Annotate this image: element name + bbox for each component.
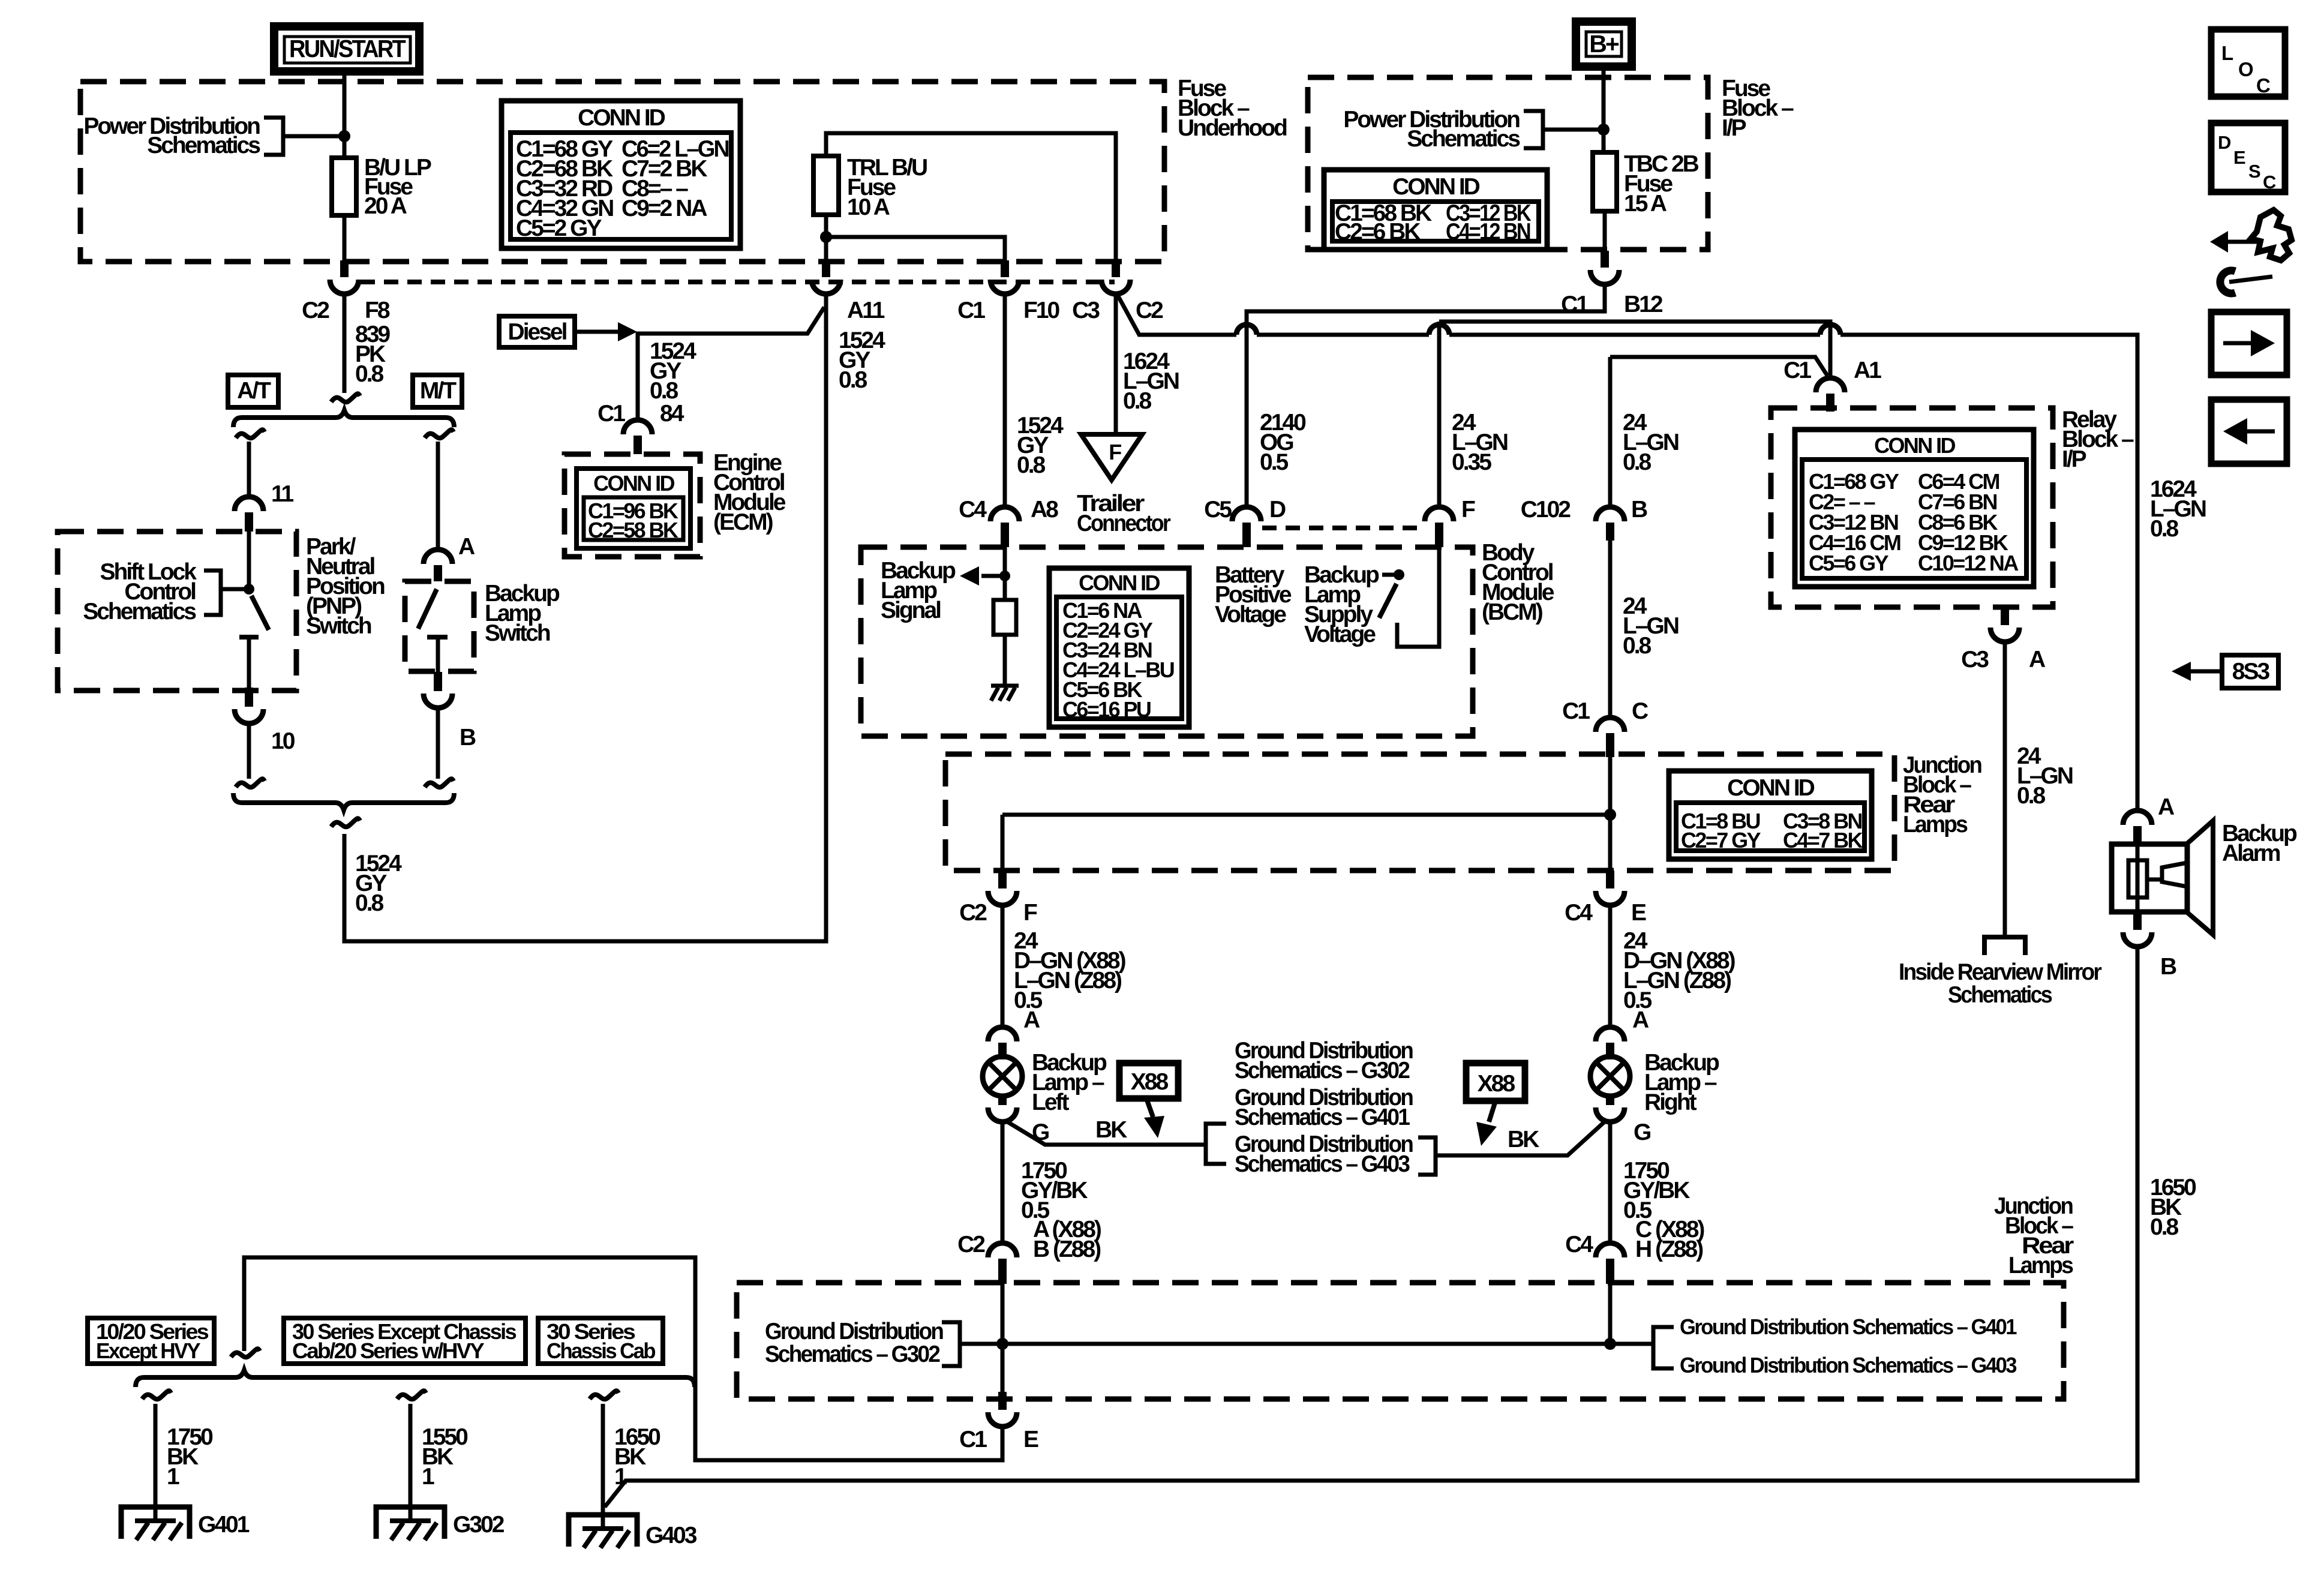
wire below pin B [436,708,440,779]
svg-text:S: S [2248,161,2261,182]
connector C2 (left lamp into junction) [957,1232,1017,1284]
wire break below pin 10 [236,779,265,787]
label 1624 L-GN 0.8 (right rail) [2150,476,2206,542]
svg-text:D: D [2218,132,2231,153]
backup lamp right [1590,1056,1630,1105]
svg-text:B: B [2160,954,2176,980]
svg-text:(BCM): (BCM) [1482,599,1543,625]
svg-text:C102: C102 [1521,497,1571,523]
ECM dashed box [565,454,700,557]
label 1524 GY 0.8 (A8 wire) [1017,413,1064,478]
svg-text:H (Z88): H (Z88) [1635,1236,1703,1262]
wire C102 column from bus 595 [1610,357,1827,376]
label 1750 GY/BK 0.5 (right) [1623,1158,1704,1262]
svg-text:A: A [2029,647,2046,673]
connector C4/E (junction exit right) [1565,870,1646,926]
icon LOC box [2211,29,2285,97]
svg-text:C2=7 GY: C2=7 GY [1681,828,1761,852]
bracket G403 right [1418,1137,1436,1175]
power tag RUN/START [274,26,419,71]
options brace (grounds) [136,1370,695,1387]
svg-text:C5: C5 [1204,497,1232,523]
CONN ID table (relay block) [1795,430,2034,587]
wire break branch G401 [142,1391,171,1399]
svg-text:CONN ID: CONN ID [578,105,665,131]
svg-text:C4: C4 [1565,1232,1593,1257]
label Fuse Block Underhood [1178,76,1287,141]
svg-text:Cab/20 Series w/HVY: Cab/20 Series w/HVY [292,1338,485,1363]
connector A (right lamp) [1596,1027,1625,1059]
svg-text:Lamps: Lamps [2008,1253,2073,1278]
CONN ID table (ECM) [577,469,690,548]
bracket power distribution I/P [1524,111,1543,148]
svg-text:C2: C2 [1136,298,1163,323]
label Backup Lamp Switch [485,581,560,646]
svg-text:B+: B+ [1589,30,1619,58]
svg-text:Ground Distribution Schematics: Ground Distribution Schematics – G403 [1680,1353,2017,1377]
wire RUN/START to fuse [343,71,347,158]
option tag M/T [413,375,462,407]
svg-text:Right: Right [1644,1089,1697,1115]
hop over A1 column [1820,325,1840,335]
label 839 PK 0.8 [355,322,390,387]
svg-text:15 A: 15 A [1624,191,1667,217]
connector C2/F8 [302,260,390,323]
svg-text:C2=58 BK: C2=58 BK [588,518,678,542]
svg-text:Schematics – G403: Schematics – G403 [1235,1151,1410,1177]
svg-text:Underhood: Underhood [1178,115,1287,141]
svg-text:1: 1 [167,1464,179,1490]
label Shift Lock Control Schematics [83,559,197,625]
wire alarm B down to G403 [605,947,2137,1507]
svg-text:O: O [2238,58,2254,80]
svg-text:A: A [1023,1007,1040,1033]
wire right lamp ground diagonal [1436,1119,1607,1155]
label 1750 GY/BK 0.5 (left) [1021,1158,1101,1262]
wire 1524 GY down and over to A11 wire [344,294,826,941]
svg-text:Chassis Cab: Chassis Cab [547,1338,656,1363]
wire TBC fuse to B12 [1603,211,1607,251]
label 1524 GY 0.8 (A11 wire) [839,328,885,393]
svg-text:Signal: Signal [881,598,941,623]
tag Diesel with arrow [499,316,637,347]
terminal to inside rearview mirror [1984,937,2025,955]
bracket power distribution underhood [264,118,283,155]
label 1650 BK 0.8 (alarm) [2150,1175,2196,1240]
icon back arrow box [2211,400,2287,464]
svg-text:Schematics – G302: Schematics – G302 [765,1341,940,1367]
connector C3/C2 [1072,260,1163,323]
tag X88 (left) with arrow [1119,1063,1178,1138]
svg-text:C4: C4 [1565,900,1593,926]
svg-text:C4=12 BN: C4=12 BN [1446,219,1530,245]
svg-text:20 A: 20 A [364,193,407,219]
svg-text:CONN ID: CONN ID [1874,433,1955,458]
svg-text:0.8: 0.8 [355,890,384,916]
svg-text:Alarm: Alarm [2222,840,2280,866]
svg-text:C3: C3 [1961,647,1989,673]
svg-text:Schematics – G401: Schematics – G401 [1235,1104,1410,1130]
junction block dashed box [945,754,1894,870]
svg-text:A8: A8 [1031,497,1058,523]
connector pin 11 (PNP switch) [235,481,294,532]
svg-text:E: E [2233,147,2246,168]
backup alarm body [2112,821,2297,935]
svg-text:A11: A11 [847,298,885,323]
connector C4/A8 [959,497,1058,547]
wire C1/F10 down to C4/A8 [1003,294,1007,507]
svg-text:Diesel: Diesel [508,319,567,345]
label 2140 OG 0.5 [1260,410,1306,475]
label Engine Control Module (ECM) [713,450,786,535]
node PNP switch pivot [244,584,254,595]
connector C3/A (relay block) [1961,607,2046,673]
wire top loop from TRL fuse to C3/C2 [826,133,1116,260]
connector pin B (backup lamp switch) [424,672,476,751]
svg-text:Switch: Switch [485,620,550,646]
svg-text:F: F [1023,900,1037,926]
node junction dot at B/U LP fuse feed [338,130,350,142]
svg-text:CONN ID: CONN ID [1392,174,1480,200]
ground G302 [376,1507,505,1540]
bracket G302 [942,1322,960,1366]
connector A (backup alarm) [2123,794,2175,844]
backup lamp left [983,1056,1022,1105]
label Power Distribution Schematics (I/P) [1343,107,1520,152]
svg-text:C: C [2256,74,2271,97]
svg-text:B12: B12 [1624,292,1663,317]
label 24 L-GN 0.8 (C1/C) [1623,593,1679,659]
wire break above options brace [231,1349,260,1357]
connector C1/F10 [957,260,1059,323]
svg-text:A: A [2158,794,2175,820]
svg-text:C: C [1632,698,1649,724]
connector B (backup alarm) [2123,912,2176,980]
label Junction Block Rear Lamps (top) [1903,752,1981,837]
svg-text:0.8: 0.8 [2017,783,2046,809]
svg-text:0.8: 0.8 [650,378,678,404]
svg-text:11: 11 [271,481,294,507]
svg-text:10: 10 [271,728,295,754]
ground (BCM internal) [991,686,1019,701]
joining brace below PNP and backup lamp switch [233,793,454,810]
svg-text:0.35: 0.35 [1452,449,1491,475]
label Relay Block I/P [2062,407,2134,472]
wire left lamp ground diagonal [1005,1121,1206,1145]
backup lamp switch lower contact [427,635,448,640]
svg-text:E: E [1023,1427,1038,1452]
svg-text:C1: C1 [1561,292,1589,317]
wire break above A/T M/T brace [331,394,360,402]
fuse TBC 2B 15A [1593,151,1699,217]
svg-text:1: 1 [614,1464,627,1490]
label Body Control Module (BCM) [1482,540,1554,625]
wire branch to G302 [409,1404,413,1522]
svg-text:RUN/START: RUN/START [289,35,406,62]
wire C102/B down to C1/C [1608,541,1613,718]
svg-text:CONN ID: CONN ID [593,471,674,496]
icon DESC box [2211,123,2285,193]
ground G403 [569,1515,697,1548]
svg-text:Switch: Switch [306,613,371,639]
resistor (backup lamp signal) [993,600,1016,635]
arrow backup lamp signal [981,574,1005,578]
wire dot to C1/F10 [826,237,1005,260]
svg-text:C2: C2 [959,900,987,926]
svg-text:0.8: 0.8 [1123,388,1152,414]
svg-text:84: 84 [660,401,684,427]
wire break below joining brace [331,818,360,827]
label 1524 GY 0.8 (ECM branch) [650,338,696,404]
connector C1/A1 [1783,358,1881,412]
connector C102/B [1521,497,1647,541]
tag X88 (right) with arrow [1466,1063,1525,1146]
connector C1/C [1562,698,1649,757]
wire C3/C2 trailer drop [1114,294,1118,434]
svg-text:C6=16 PU: C6=16 PU [1062,697,1151,722]
wire junction C4/E to right lamp [1608,905,1613,1027]
label 1650 BK 1 [614,1424,660,1490]
svg-text:X88: X88 [1478,1071,1515,1097]
svg-text:A/T: A/T [237,378,271,404]
wire right branch to pin A [425,430,454,438]
svg-text:C9=2 NA: C9=2 NA [621,196,707,221]
label 1550 BK 1 [422,1424,468,1490]
svg-text:0.8: 0.8 [355,361,384,387]
connector A11 [812,260,885,323]
wire break branch G403 [590,1391,618,1399]
bracket shift lock [204,571,221,615]
bracket G401/G403 right [1653,1327,1674,1368]
svg-text:B: B [1631,497,1647,523]
svg-text:F8: F8 [365,298,390,323]
dotted BCM connector interface line [1262,526,1424,530]
option tag 30 Series Chassis Cab [538,1318,663,1364]
dotted connector interface line (fuse block underhood) [361,280,1115,284]
svg-text:X88: X88 [1131,1069,1169,1095]
node backup lamp signal dot [999,571,1010,581]
wire fuse to A11 [824,215,828,260]
wire ECM branch from A11 [638,307,824,420]
label Ground Distribution Schematics G302 (left) [765,1319,943,1367]
wire bus 536 linking F and A1 [1439,322,1830,377]
tag 8S3 with arrow [2172,655,2278,688]
fuse TRL B/U 10A [813,155,927,220]
label 1624 L-GN 0.8 (trailer) [1123,349,1179,414]
svg-text:0.8: 0.8 [1623,633,1652,659]
label 24 D-GN L-GN 0.5 A (left) [1014,928,1126,1033]
wire C1/E loop to options brace [244,1257,1002,1460]
connector C4 (right lamp into junction) [1565,1232,1625,1284]
PNP switch upper wire [247,532,251,587]
relay block dashed box [1771,408,2053,607]
label 1524 GY 0.8 (left) [355,851,402,916]
junction block internal bus [1002,757,1610,870]
svg-text:Except HVY: Except HVY [96,1338,201,1363]
svg-text:G302: G302 [453,1512,505,1538]
label Backup Lamp Signal [881,558,956,623]
icon forward arrow box [2211,312,2287,375]
label Power Distribution Schematics (underhood) [83,113,260,158]
label 24 L-GN 0.8 (C102) [1623,410,1679,475]
bracket G403 left [1206,1124,1226,1164]
svg-text:0.5: 0.5 [1260,449,1289,475]
wire B12 down and left to C5/D column [1247,284,1605,507]
wire left branch to pin 11 [247,442,251,497]
svg-text:C: C [2263,172,2276,193]
connector pin A (backup lamp switch) [424,534,475,581]
svg-text:A1: A1 [1854,358,1881,383]
svg-text:CONN ID: CONN ID [1727,775,1815,801]
wire 839 PK below C2/F8 [343,294,347,393]
svg-text:D: D [1269,497,1286,523]
label 24 D-GN L-GN 0.5 A (right) [1623,928,1736,1033]
svg-text:E: E [1631,900,1646,926]
wire shift lock bracket to switch [221,587,249,592]
connector pin 10 (PNP switch) [235,688,295,754]
svg-text:C4: C4 [959,497,987,523]
svg-text:L: L [2221,42,2233,64]
svg-text:C1: C1 [1783,358,1811,383]
label Inside Rearview Mirror Schematics [1899,959,2102,1008]
wire F column down [1437,322,1442,507]
BCM dashed box [861,547,1473,736]
label Backup Lamp Supply Voltage [1304,562,1379,647]
fuse block I/P dashed box [1308,77,1708,250]
svg-text:Schematics: Schematics [83,599,196,625]
connector C2/F (junction exit left) [959,870,1037,926]
wire right lamp to bus [1608,1284,1613,1344]
label Battery Positive Voltage [1215,562,1292,628]
wire branch to G403 [601,1404,605,1530]
node bus dot right [1604,1338,1616,1350]
svg-text:C1: C1 [957,298,985,323]
wire fuse to connector C2/F8 [343,215,347,260]
svg-text:C2=6 BK: C2=6 BK [1335,219,1421,245]
svg-text:Schematics – G302: Schematics – G302 [1235,1058,1410,1083]
svg-text:Ground Distribution: Ground Distribution [765,1319,943,1344]
svg-text:BK: BK [1508,1127,1539,1152]
label 1750 BK 1 [167,1424,213,1490]
svg-text:0.8: 0.8 [2150,516,2179,542]
trailer connector terminal triangle F [1077,434,1171,536]
svg-text:G403: G403 [645,1523,697,1548]
power tag B+ [1576,22,1632,67]
fuse B/U LP 20A [332,155,431,219]
wire bracket G302 to bus [960,1342,1002,1346]
svg-text:Inside Rearview Mirror: Inside Rearview Mirror [1899,959,2102,985]
option tag 10/20 Series Except HVY [88,1318,214,1364]
svg-text:1: 1 [422,1464,434,1490]
svg-text:I/P: I/P [1722,115,1746,141]
option brace A/T M/T split [233,410,454,427]
ground distribution dashed box [737,1283,2064,1399]
svg-text:C2: C2 [302,298,329,323]
svg-text:0.8: 0.8 [839,367,867,393]
label Backup Lamp Left [1032,1050,1107,1145]
svg-text:C5=6 GY: C5=6 GY [1809,551,1888,575]
wire break left branch [236,430,265,438]
svg-text:0.8: 0.8 [1623,449,1652,475]
svg-text:0.8: 0.8 [1017,452,1046,478]
CONN ID table (BCM) [1049,568,1189,727]
svg-text:Connector: Connector [1077,511,1171,536]
wire bracket to B/U LP fuse [283,134,344,139]
svg-text:BK: BK [1095,1117,1127,1143]
label Park/Neutral Position (PNP) Switch [306,534,385,639]
svg-text:C4=7 BK: C4=7 BK [1783,828,1863,852]
svg-text:G: G [1634,1119,1650,1145]
svg-text:0.8: 0.8 [2150,1214,2179,1240]
wire A8 into BCM [1003,542,1007,600]
svg-text:I/P: I/P [2062,446,2086,472]
svg-text:Ground Distribution Schematics: Ground Distribution Schematics – G401 [1680,1314,2017,1339]
svg-text:C10=12 NA: C10=12 NA [1918,551,2019,575]
BCM backup lamp supply switch [1379,547,1439,647]
svg-text:Left: Left [1032,1089,1070,1115]
connector C1/B12 [1561,251,1663,317]
connector F (BCM) [1425,497,1475,547]
CONN ID table (fuse block I/P) [1324,170,1547,250]
svg-text:M/T: M/T [420,378,457,404]
label Junction Block Rear Lamps (bottom right) [1994,1193,2074,1278]
svg-text:Schematics: Schematics [1948,982,2052,1008]
node bus dot left [996,1338,1008,1350]
connector C5/D [1204,497,1286,547]
wire left lamp down [1001,1122,1005,1243]
option tag A/T [228,375,278,407]
svg-text:Lamps: Lamps [1903,812,1968,837]
wire branch to G401 [154,1404,158,1522]
svg-text:C2: C2 [957,1232,985,1257]
node junction dot TBC feed [1598,124,1610,136]
fuse block underhood dashed box [80,82,1164,262]
wire break below pin B [425,779,454,787]
option tag 30 Series Except Chassis Cab/20 Series w/HVY [284,1318,526,1364]
wire break branch G302 [397,1391,426,1399]
svg-text:C1: C1 [597,401,625,427]
svg-text:Schematics: Schematics [147,133,260,158]
CONN ID table (junction block) [1669,771,1872,859]
connector C1/E (left lamp below box) [959,1392,1038,1452]
label Fuse Block I/P [1722,76,1794,141]
label 24 L-GN 0.8 (mirror) [2017,743,2073,809]
wire resistor to ground [1003,635,1007,684]
connector C1/84 (ECM) [597,401,684,454]
connector G (left lamp) [988,1107,1017,1122]
wire B+ down to fuse [1602,67,1606,152]
svg-text:C1: C1 [959,1427,987,1452]
hop over C5/D column [1236,325,1257,335]
PNP switch lower contact [239,635,259,640]
svg-text:C5=2 GY: C5=2 GY [516,215,602,241]
svg-text:8S3: 8S3 [2232,659,2270,685]
wire bracket to TBC fuse feed [1543,128,1605,132]
node TRL fuse output dot [820,231,832,243]
connector G (right lamp) [1596,1107,1625,1122]
PNP switch blade [251,596,269,630]
svg-text:F10: F10 [1023,298,1060,323]
svg-text:C3: C3 [1072,298,1100,323]
wire junction C2/F to left lamp [1001,905,1005,1027]
node junction bus dot [1604,809,1616,821]
wire from C3/C2 across to right rail (with hops) [1118,295,2137,810]
svg-text:(ECM): (ECM) [713,509,773,535]
svg-text:B: B [460,725,476,751]
wire right lamp down [1608,1122,1613,1243]
label Ground Distribution Schematics G302/G401/G403 (center) [1235,1038,1413,1177]
wire below pin 10 [247,724,251,779]
